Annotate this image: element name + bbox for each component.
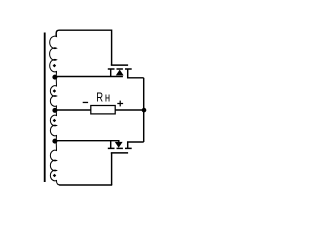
transistor Q1 drain stub and bend to rail [128, 69, 144, 78]
label plus [117, 101, 123, 107]
transistor Q1 (top MOSFET) gate bar [111, 64, 128, 66]
wire: resistor (plus side) to right rail [115, 109, 144, 111]
svg-text:Rн: Rн [96, 91, 111, 105]
wire: tap D to Q2 source/body [55, 141, 119, 143]
wire: Q2 gate lead down to bottom wire [111, 153, 113, 185]
winding W1 (top section) [50, 35, 57, 77]
transistor Q1 source stub [110, 69, 112, 77]
transistor Q2 (bottom MOSFET) drain stub and bend to rail [128, 142, 144, 148]
winding W4 (bottom section) [50, 141, 60, 185]
right rail (drain-drain) [143, 78, 145, 142]
polarity mark W1 [53, 64, 57, 68]
wire: Q1 gate lead [111, 30, 113, 66]
winding W3 [50, 110, 56, 141]
winding W2 [50, 77, 56, 111]
wire: tap B to Q1 source/body [55, 76, 123, 78]
polarity mark W3 [53, 119, 57, 123]
wire: winding top end to Q1 gate [56, 30, 111, 36]
polarity mark W2 [53, 89, 57, 93]
junction dot tap B [52, 75, 57, 80]
junction dot tap D [52, 139, 57, 144]
polarity mark W4 [53, 174, 57, 178]
transformer core [44, 33, 46, 183]
transistor Q2 body arrow [115, 142, 123, 148]
label minus [83, 102, 88, 103]
transistor Q2 source stub [110, 141, 112, 149]
resistor Rн body [91, 106, 115, 114]
transistor Q2 channel segments [108, 147, 132, 149]
junction dot right rail [142, 108, 147, 113]
transistor Q1 body arrow [116, 70, 124, 76]
junction dot tap C [52, 108, 57, 113]
transistor Q1 channel segments [108, 68, 132, 70]
wire: tap C to resistor (minus side) [55, 109, 91, 111]
wire: winding bottom end to Q2 gate [59, 184, 112, 186]
transistor Q2 gate bar [111, 152, 128, 154]
